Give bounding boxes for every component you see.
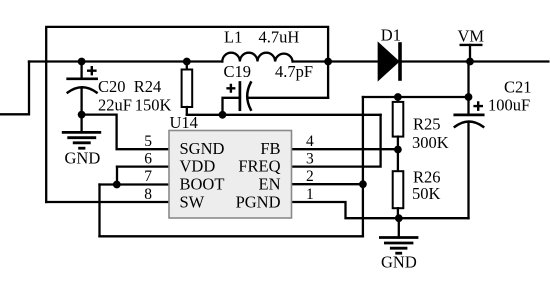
wire SW pin 8 — [46, 201, 169, 203]
wire EN pin 2 — [292, 183, 363, 185]
ground (right) — [398, 218, 400, 237]
node R25 top — [394, 93, 402, 101]
capacitor C20 plus sign — [87, 66, 97, 75]
capacitor C21 plus sign — [473, 101, 483, 111]
wire FB pin 4 — [292, 148, 398, 150]
svg-text:7: 7 — [144, 168, 152, 185]
node C19 left — [219, 111, 227, 119]
svg-text:GND: GND — [381, 253, 417, 272]
svg-text:8: 8 — [144, 186, 152, 203]
wire main rail mid section — [293, 60, 379, 62]
svg-text:3: 3 — [306, 151, 314, 168]
node C20 top — [78, 58, 86, 66]
node FB divider — [394, 146, 402, 154]
node R24 top — [183, 58, 191, 66]
svg-text:D1: D1 — [381, 25, 401, 44]
capacitor C21 plates — [455, 114, 483, 117]
wire bottom (PGND to ground node to C21) — [292, 202, 469, 218]
svg-text:6: 6 — [144, 151, 152, 168]
capacitor C19 left wire — [223, 98, 240, 115]
svg-text:300K: 300K — [412, 133, 449, 152]
node C21 top — [465, 93, 473, 101]
capacitor C21 stem top — [467, 62, 469, 115]
resistor R25 — [397, 97, 399, 102]
capacitor C19 right wire — [248, 97, 329, 99]
svg-text:VM: VM — [458, 27, 485, 46]
wire VDD pin 6 — [117, 165, 169, 167]
IC U14 — [169, 131, 292, 219]
capacitor C19 plus sign — [226, 84, 235, 93]
svg-text:C20: C20 — [98, 77, 126, 96]
capacitor C20 stem bottom — [80, 89, 82, 115]
wire BOOT riser — [98, 185, 100, 237]
svg-text:SGND: SGND — [180, 139, 225, 158]
svg-text:L1: L1 — [224, 28, 242, 47]
capacitor C19 plates — [239, 83, 242, 110]
svg-text:22uF: 22uF — [98, 96, 132, 115]
node VM — [466, 58, 474, 66]
resistor R26 — [397, 150, 399, 172]
node ground right — [395, 214, 403, 222]
node BOOT junction — [113, 181, 121, 189]
wire input step from left edge — [0, 62, 29, 115]
svg-text:4: 4 — [306, 133, 314, 150]
svg-text:C19: C19 — [224, 62, 252, 81]
diode D1 — [379, 44, 398, 79]
svg-text:BOOT: BOOT — [180, 175, 225, 194]
wire FREQ riser — [292, 115, 381, 167]
svg-text:4.7uH: 4.7uH — [259, 28, 300, 47]
wire C20 bottom to SGND pin 5 — [82, 115, 169, 150]
svg-text:R25: R25 — [413, 115, 441, 134]
node L1/D1/SW junction — [324, 58, 332, 66]
svg-text:FB: FB — [260, 139, 280, 158]
wire main rail right section — [402, 60, 548, 62]
svg-text:1: 1 — [306, 186, 314, 203]
svg-text:C21: C21 — [504, 78, 532, 97]
svg-text:2: 2 — [306, 168, 314, 185]
wire bottom long (BOOT net) — [100, 235, 363, 237]
svg-text:4.7pF: 4.7pF — [275, 62, 313, 81]
capacitor C20 plates — [68, 77, 97, 80]
wire BOOT pin 7 — [100, 183, 170, 185]
svg-text:EN: EN — [259, 175, 281, 194]
svg-text:PGND: PGND — [236, 193, 281, 212]
wire EN node top horizontal — [363, 96, 469, 98]
resistor R24 — [186, 62, 188, 70]
ground (left) — [80, 115, 82, 133]
svg-text:SW: SW — [180, 193, 205, 212]
svg-text:U14: U14 — [170, 113, 198, 132]
inductor L1 — [222, 53, 292, 62]
svg-text:VDD: VDD — [180, 157, 216, 176]
capacitor C20 stem top — [80, 62, 82, 79]
node EN junction — [359, 180, 367, 188]
wire VDD to BOOT link — [116, 167, 118, 185]
svg-text:R24: R24 — [134, 77, 162, 96]
wire EN riser long — [362, 97, 364, 236]
wire lower rail (R24 bottom, C19 left, FREQ) — [187, 114, 381, 116]
svg-text:5: 5 — [144, 133, 152, 150]
svg-text:FREQ: FREQ — [238, 157, 280, 176]
wire top rail (SW to L1/D1 junction) — [46, 27, 328, 202]
svg-text:100uF: 100uF — [488, 96, 530, 115]
node C20 bottom — [78, 111, 86, 119]
wire main rail left section — [29, 60, 222, 62]
svg-text:GND: GND — [65, 149, 101, 168]
svg-text:50K: 50K — [412, 184, 441, 203]
terminal VM — [461, 44, 482, 46]
svg-text:150K: 150K — [135, 96, 172, 115]
capacitor C21 stem bottom — [467, 123, 469, 218]
